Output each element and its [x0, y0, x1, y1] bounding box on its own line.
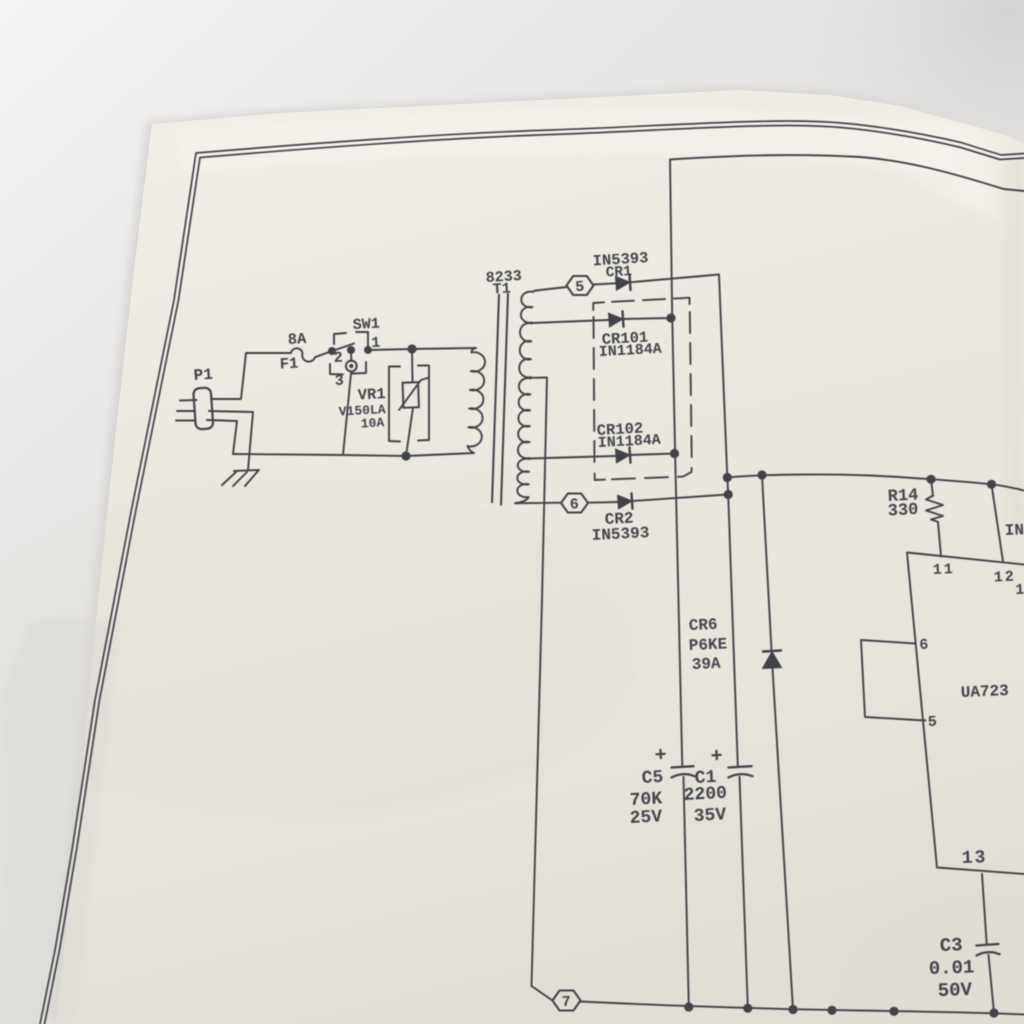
R14 label [887, 486, 919, 507]
svg-text:IN5393: IN5393 [591, 524, 649, 545]
dashed enclosure CR101/CR102 [593, 298, 692, 480]
svg-text:0.01: 0.01 [928, 956, 974, 980]
wire pin 13 [982, 874, 987, 944]
capacitor C1 plates [729, 766, 753, 777]
VR1 bracket left [389, 367, 400, 442]
SW1 bracket bottom-right [352, 362, 366, 374]
UA723 pin 5 label [927, 714, 937, 731]
transformer T1 label 8233 [485, 268, 522, 287]
SW1 bracket top-right [356, 332, 368, 348]
C5 value 25V [629, 807, 663, 829]
VR1 value 10A [360, 415, 384, 431]
svg-text:IN4: IN4 [1004, 521, 1024, 540]
svg-text:+: + [710, 745, 723, 769]
node 6 hexagon [561, 494, 588, 514]
wire center tap vertical [532, 378, 548, 987]
SW1 pin 2 label [333, 350, 343, 367]
T1 center tap wire [531, 377, 547, 379]
svg-text:5: 5 [575, 279, 585, 296]
wire bus C1 vertical [719, 275, 738, 767]
wire R14 bottom lead / pin 11 [938, 522, 941, 557]
junction rail CR6 [788, 1005, 797, 1014]
junction R14 top [926, 475, 935, 484]
C1 label [694, 768, 717, 789]
SW1 contact 2 [328, 347, 336, 355]
CR2 value IN5393 [591, 524, 649, 545]
wire top horizontal [670, 155, 1024, 191]
CR1 label IN5393 [592, 249, 649, 270]
svg-text:P6KE: P6KE [688, 635, 727, 655]
svg-text:2200: 2200 [683, 784, 727, 806]
diode CR2 [618, 493, 633, 509]
svg-text:25V: 25V [629, 807, 663, 829]
UA723 pin 11 label [932, 561, 955, 579]
T1 secondary bottom wire [515, 502, 561, 505]
wire bus C5 vertical [670, 160, 682, 768]
C1 plus [710, 745, 723, 769]
svg-text:+: + [654, 744, 667, 768]
svg-text:7: 7 [561, 994, 571, 1011]
node 5 hexagon [567, 276, 594, 296]
IC UA723 box [907, 553, 1024, 875]
transformer T1 label [492, 280, 511, 298]
P1 prong 1 [180, 399, 197, 402]
node 7 hexagon [553, 991, 581, 1012]
CR101 value IN1184A [598, 341, 662, 361]
label IN4 partial [1004, 521, 1024, 540]
CR6 label [688, 616, 718, 635]
SW1 blade [332, 344, 354, 352]
wire C1 bottom [740, 777, 748, 1008]
UA723 pin 12 label [993, 569, 1016, 587]
SW1 center contact [347, 346, 355, 354]
capacitor C5 plates [672, 766, 695, 777]
svg-text:F1: F1 [279, 355, 299, 374]
fuse F1 [291, 348, 332, 361]
wire CR6 top [762, 475, 772, 650]
svg-text:39A: 39A [691, 655, 721, 674]
wire C5 bottom [684, 777, 689, 1007]
wire primary bottom rail [233, 453, 474, 456]
C3 value 50V [937, 979, 973, 1002]
wire CR2 to bus [632, 495, 728, 502]
CR101 label [601, 329, 648, 349]
ground symbol [222, 470, 259, 486]
VR1 top junction [407, 344, 416, 353]
wire CR101 to bus [623, 318, 671, 319]
T1 secondary top tap wire [536, 287, 567, 291]
zener diode CR6 [763, 651, 782, 669]
diode CR102 [616, 447, 631, 463]
wire C3 bottom [989, 955, 995, 1013]
svg-text:8A: 8A [287, 330, 307, 349]
connector P1 label [193, 366, 213, 385]
fuse F1 label 8A [287, 330, 307, 349]
diode CR101 [609, 311, 624, 327]
wire bottom rail [581, 1002, 1024, 1015]
junction pin12 branch [987, 480, 996, 489]
junction CR102 bus [670, 449, 679, 458]
svg-text:C5: C5 [641, 768, 664, 789]
UA723 feedback box pins 6-5 [861, 640, 926, 721]
VR1 bottom junction [401, 451, 410, 460]
wire +V rail [727, 474, 1024, 490]
svg-text:11: 11 [932, 561, 955, 579]
junction bus dot lower [724, 490, 733, 499]
R14 value 330 [887, 501, 919, 522]
C3 label [939, 934, 963, 957]
svg-text:330: 330 [887, 501, 919, 522]
T1 secondary winding [516, 291, 537, 504]
junction CR6 branch [757, 470, 766, 479]
UA723 label [960, 682, 1009, 702]
C3 value 0.01 [928, 956, 974, 980]
T1 core bar right [501, 293, 508, 506]
VR1 value V150LA [338, 402, 386, 419]
CR102 value IN1184A [597, 432, 661, 452]
svg-text:35V: 35V [693, 805, 727, 827]
SW1 lamp circle [346, 361, 357, 372]
junction rail b [889, 1007, 898, 1016]
UA723 pin 10 partial label [1015, 581, 1024, 599]
svg-text:CR6: CR6 [688, 616, 718, 635]
varistor VR1 body [399, 378, 428, 410]
junction bus dot upper [723, 473, 732, 482]
T1 core bar left [492, 294, 499, 503]
SW1 bracket top-left [334, 333, 346, 344]
CR1 label [605, 264, 632, 282]
UA723 pin 6 label [919, 637, 929, 654]
wire VR1 bottom [406, 408, 413, 457]
junction rail C3 [989, 1008, 998, 1017]
wire pin 12 [992, 484, 1004, 561]
wire VR1 top [411, 349, 414, 382]
wire P1 hot to fuse [211, 353, 290, 399]
svg-text:10A: 10A [360, 415, 384, 431]
wire SW1 center to circle [350, 350, 352, 361]
CR2 label [604, 510, 634, 529]
T1 tap wire to CR101 [533, 320, 608, 323]
resistor R14 zigzag [926, 496, 943, 522]
CR6 value 39A [691, 655, 721, 674]
SW1 bracket bottom-left [330, 364, 343, 375]
C5 plus [654, 744, 667, 768]
wire node6 to CR2 [588, 501, 618, 504]
diode CR1 [616, 275, 631, 291]
junction rail C1 [743, 1004, 752, 1013]
wire CR6 bottom [773, 668, 794, 1010]
wire CR1 to bus [630, 275, 719, 283]
svg-text:C3: C3 [939, 934, 963, 957]
CR102 label [596, 420, 643, 440]
svg-text:10: 10 [1015, 581, 1024, 599]
wire node5 to CR1 [594, 283, 617, 284]
SW1 pin 1 label [371, 335, 381, 352]
svg-text:6: 6 [919, 637, 929, 654]
connector P1 body [193, 387, 213, 429]
svg-text:IN1184A: IN1184A [598, 341, 662, 361]
svg-text:50V: 50V [937, 979, 973, 1002]
C5 label [641, 768, 664, 789]
wire SW1 circle to rail [343, 372, 351, 456]
UA723 pin 13 label [962, 848, 988, 869]
SW1 contact 1 [364, 346, 372, 354]
fuse F1 label [279, 355, 299, 374]
svg-text:P1: P1 [193, 366, 213, 385]
svg-text:12: 12 [993, 569, 1016, 587]
wire into node 7 [532, 986, 553, 1001]
backdrop corner shading [760, 0, 1024, 260]
P1 prong 3 [176, 420, 194, 422]
svg-text:5: 5 [927, 714, 937, 731]
T1 tap wire to CR102 [530, 456, 615, 459]
wire P1 ground to rail [207, 420, 237, 454]
T1 primary winding [468, 348, 485, 453]
junction rail C5 [684, 1002, 693, 1011]
wire SW1 to VR1 to T1 [368, 348, 476, 350]
SW1 pin 3 label [334, 373, 344, 390]
VR1 label [357, 385, 386, 404]
wire P1 neutral down [209, 411, 253, 470]
wire R14 top lead [931, 479, 933, 496]
switch SW1 label [352, 316, 380, 334]
svg-text:6: 6 [569, 496, 579, 513]
junction rail a [827, 1006, 836, 1015]
svg-text:13: 13 [962, 848, 988, 869]
wire CR102 to bus [630, 454, 675, 456]
C1 value 2200 [683, 784, 727, 806]
svg-text:UA723: UA723 [960, 682, 1009, 702]
C1 value 35V [693, 805, 727, 827]
P1 prong 2 [177, 410, 195, 412]
junction CR101 bus [666, 313, 675, 322]
capacitor C3 plates [977, 944, 1000, 956]
C5 value 70K [629, 789, 663, 811]
CR6 value P6KE [688, 635, 727, 655]
VR1 bracket right [418, 366, 429, 441]
